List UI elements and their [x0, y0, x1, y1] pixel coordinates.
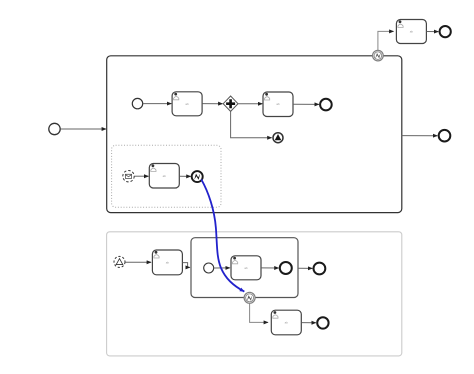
svg-text:ab: ab — [185, 102, 189, 106]
svg-text:ab: ab — [410, 30, 414, 34]
svg-text:ab: ab — [163, 174, 167, 178]
svg-text:ab: ab — [244, 266, 248, 270]
svg-text:ab: ab — [285, 321, 289, 325]
svg-text:ab: ab — [276, 102, 280, 106]
svg-text:ab: ab — [166, 260, 170, 264]
